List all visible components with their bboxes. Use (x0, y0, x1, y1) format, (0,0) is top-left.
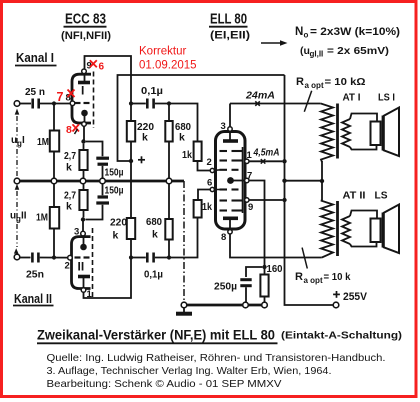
pin 2 stub (214, 169, 219, 172)
resistor 2,7k channel II (79, 184, 87, 218)
svg-text:R: R (295, 271, 303, 283)
capacitor 250µ (240, 280, 251, 303)
svg-text:Zweikanal-Verstärker (NF,E) mi: Zweikanal-Verstärker (NF,E) mit ELL 80 (37, 328, 275, 343)
svg-text:II: II (21, 211, 27, 222)
red cross over pin 9 (90, 60, 97, 67)
resistor 2,7k channel I (79, 144, 87, 179)
anode EII bar (223, 217, 238, 221)
capacitor 0,1µ channel II (147, 253, 153, 263)
title line (37, 328, 402, 344)
svg-text:150µ: 150µ (105, 167, 124, 179)
wire bus to transformer center (285, 180, 321, 182)
tube II cathode dot (80, 244, 87, 251)
svg-text:0,1µ: 0,1µ (141, 85, 163, 97)
circle 160 ground (262, 302, 268, 308)
ELL80 pin 1 circle (245, 159, 249, 163)
arrow to specs (261, 40, 288, 46)
resistor 680k channel I (165, 105, 172, 178)
tube I grid pin circle (70, 101, 75, 106)
pin 6 stub (214, 189, 219, 191)
signal source dash-dot line channel II (16, 191, 18, 247)
svg-text:3: 3 (221, 121, 226, 132)
lead pin 3 to anode wire (229, 104, 231, 127)
label + 255V (333, 291, 368, 303)
svg-text:9: 9 (248, 202, 253, 213)
bottom ground rail (187, 304, 265, 307)
label Kanal II (13, 292, 54, 306)
node input grid I (52, 101, 56, 105)
heading ELL 80 (209, 12, 250, 42)
24mA measuring cross (255, 101, 259, 106)
svg-text:AT II: AT II (343, 190, 366, 202)
rail circle at 2,7k junction (80, 178, 86, 184)
resistor 1k channel II (194, 190, 211, 218)
B+ bus vertical (285, 75, 334, 305)
svg-text:Kanal I: Kanal I (16, 51, 54, 65)
tube II anode lead (83, 277, 85, 288)
node anode I (129, 101, 133, 105)
svg-text:R: R (296, 76, 304, 88)
capacitor 150µ channel II (96, 184, 109, 203)
wire anode node to coupling cap (131, 103, 146, 105)
cathode dot lead to pin 7 (231, 180, 245, 182)
svg-text:Quelle: Ing. Ludwig Ratheiser,: Quelle: Ing. Ludwig Ratheiser, Röhren- u… (47, 353, 386, 364)
pointer line to transformer I (304, 91, 311, 112)
svg-text:(Eintakt-A-Schaltung): (Eintakt-A-Schaltung) (281, 330, 402, 342)
wire terminal II to capacitor (20, 257, 31, 259)
signal source dash-dot line channel I (16, 116, 18, 177)
tube I envelope (72, 74, 91, 123)
rail circle at 150µ junction (100, 178, 106, 184)
svg-text:Kanal II: Kanal II (14, 292, 52, 306)
tube II bottom pin circle (81, 288, 86, 293)
tube I cathode dot (81, 110, 88, 117)
svg-text:2,7: 2,7 (64, 150, 76, 162)
secondary II loop to speaker (350, 211, 377, 219)
ground symbol (176, 308, 192, 314)
red cross bottom (73, 124, 80, 131)
transformer I primary winding (321, 104, 333, 163)
resistor 1M channel I (50, 105, 59, 178)
spec text ugI,II = 2x 65mV (300, 45, 389, 59)
source caption lines (47, 353, 386, 390)
wire anode II to node (84, 259, 132, 298)
transformer I primary lead to center node (321, 161, 323, 181)
svg-text:= 2x3W (k=10%): = 2x3W (k=10%) (310, 26, 400, 38)
wire pin 3 to cathode node (82, 222, 84, 232)
rail terminal circle (input ground) (14, 178, 20, 184)
wire input to capacitor (20, 103, 31, 105)
rail circle at 680k junction (166, 178, 172, 184)
svg-text:220: 220 (110, 217, 127, 229)
cathode bypass wire channel II (86, 205, 103, 220)
speaker II cone (384, 205, 399, 254)
svg-text:Korrektur: Korrektur (139, 46, 186, 58)
svg-text:8: 8 (66, 124, 72, 136)
transformer I core (336, 104, 339, 159)
speaker I magnet (371, 122, 381, 146)
resistor 1k channel I (194, 142, 211, 171)
circle 250µ ground (243, 302, 249, 308)
svg-text:3: 3 (74, 227, 79, 238)
wire anode I up and over (85, 56, 132, 102)
svg-text:= 10 kΩ: = 10 kΩ (325, 76, 366, 88)
tube II envelope (72, 237, 91, 289)
svg-text:k: k (179, 132, 185, 144)
ground terminal circle (181, 302, 187, 308)
transformer II core (336, 201, 339, 256)
cathode wire pin 7 down to 160 (249, 181, 265, 266)
ELL80 pin 6 circle (210, 187, 214, 191)
input terminal channel I (14, 101, 20, 107)
rail circle at 1M junction (51, 178, 57, 184)
label Ra opt = 10 k (bottom) (295, 271, 351, 285)
capacitor 150µ channel I (96, 158, 109, 178)
svg-text:I: I (81, 84, 84, 98)
node grid EI (167, 101, 171, 105)
red correction note (139, 46, 197, 72)
svg-text:= 2x 65mV): = 2x 65mV) (327, 45, 389, 57)
svg-text:k: k (66, 162, 72, 174)
svg-text:I: I (22, 135, 25, 146)
spec text No = 2x3W (k=10%) (295, 26, 400, 40)
svg-text:2: 2 (207, 157, 212, 168)
anode EI wire to transformer I (230, 103, 321, 105)
svg-text:= 10 k: = 10 k (324, 271, 351, 283)
ELL80 pin 8 circle (228, 230, 232, 234)
capacitor 25n channel II (32, 253, 38, 263)
pointer line to transformer II (302, 248, 307, 269)
grid rows bottom pentode (220, 190, 243, 211)
wire cathode pin to node (83, 126, 85, 140)
wire capacitor II to grid (40, 257, 68, 259)
label Kanal I (15, 51, 57, 66)
svg-text:(u: (u (300, 45, 310, 57)
svg-text:k: k (142, 132, 148, 144)
ELL80 pin 7 circle (245, 178, 249, 182)
svg-text:2: 2 (65, 261, 70, 272)
svg-text:LS I: LS I (378, 92, 395, 104)
svg-text:AT I: AT I (343, 92, 361, 104)
speaker II diaphragm (382, 213, 385, 248)
black tick under red cross (75, 129, 78, 134)
arrow above terminal II (14, 248, 19, 253)
svg-text:25 n: 25 n (25, 86, 45, 98)
anode EII bar lead (229, 218, 231, 229)
speaker I cone (384, 108, 399, 157)
svg-text:680: 680 (146, 216, 162, 228)
screen EII wire (pin 9) (249, 199, 282, 201)
red cross over pin 8 (68, 90, 75, 98)
svg-text:1M: 1M (36, 212, 48, 224)
capacitor 0,1µ channel I (147, 99, 153, 109)
svg-text:25n: 25n (26, 269, 44, 281)
ELL80 envelope (216, 132, 246, 230)
screen EI wire (pin 1) with 4,5mA cross (249, 160, 282, 162)
anode EII wire (pin 8) to transformer II (230, 234, 322, 258)
svg-text:250µ: 250µ (214, 281, 237, 293)
svg-text:255V: 255V (343, 291, 368, 303)
node grid EII (167, 255, 171, 259)
node transformer center (320, 179, 324, 183)
svg-text:N: N (295, 26, 303, 38)
svg-text:ECC 83: ECC 83 (65, 12, 106, 28)
resistor 160 (260, 267, 268, 302)
svg-text:150µ: 150µ (105, 185, 124, 197)
tube II anode bar (78, 275, 90, 279)
signal source arrow channel I (15, 109, 20, 115)
ELL80 pin 2 circle (210, 168, 214, 172)
svg-text:8: 8 (221, 232, 226, 243)
plus sign at B+ node (138, 156, 145, 163)
cathode node II (81, 217, 85, 221)
secondary I loop to speaker (350, 114, 377, 122)
node input grid II (52, 255, 56, 259)
wire capacitor to grid (40, 103, 70, 105)
ELL80 cathode dot (227, 177, 234, 184)
node screen EII on bus (282, 198, 286, 202)
B+ feed to 220k channel II (crosses rail) (130, 161, 132, 218)
svg-text:01.09.2015: 01.09.2015 (139, 60, 197, 72)
tube I anode bar (78, 81, 90, 85)
svg-text:3. Auflage, Technischer Verlag: 3. Auflage, Technischer Verlag Ing. Walt… (47, 366, 332, 377)
tube I bottom pin circle (82, 122, 87, 127)
node transformer feed on bus (282, 179, 286, 183)
svg-text:4,5mA: 4,5mA (253, 147, 280, 159)
wire coupling cap II to 1k II (155, 218, 198, 258)
node anode II (129, 255, 133, 259)
resistor 680k channel II (165, 184, 172, 256)
speaker II magnet (371, 219, 381, 243)
svg-text:(NFI,NFII): (NFI,NFII) (61, 30, 111, 42)
svg-text:(EI,EII): (EI,EII) (210, 30, 250, 42)
svg-text:k: k (152, 229, 158, 241)
anode EI bar lead (229, 132, 231, 140)
grid rows top pentode (220, 151, 243, 170)
svg-text:ELL 80: ELL 80 (210, 12, 247, 28)
svg-text:a opt: a opt (304, 276, 323, 285)
node screen EI on bus (282, 159, 286, 163)
svg-text:6: 6 (99, 62, 105, 73)
svg-text:gI,II: gI,II (310, 50, 324, 59)
tube II envelope dashed side (92, 228, 94, 299)
svg-text:o: o (304, 31, 309, 40)
+255V terminal (333, 302, 339, 308)
svg-text:160: 160 (267, 263, 283, 275)
cathode bypass wire channel I (86, 142, 103, 157)
wire 160 node to 250µ (246, 267, 262, 277)
wire anode node II to coupling cap II (131, 257, 146, 259)
anode EI bar (223, 139, 238, 143)
rail drop wire (dash-dot) to ground point (183, 181, 185, 302)
tube I anode lead to pin (84, 74, 86, 83)
svg-text:1M: 1M (37, 136, 49, 148)
tube II cathode lead (83, 236, 85, 247)
internal link top to pin 1 (242, 147, 244, 213)
resistor 1M channel II (50, 184, 59, 256)
heading ECC 83 (61, 12, 111, 43)
ELL80 pin 9 circle (245, 198, 249, 202)
input terminal channel II (14, 254, 20, 260)
cathode node I (81, 139, 85, 143)
wire coupling cap to grid stopper (155, 104, 198, 142)
tube I grid dashes (75, 102, 90, 104)
speaker I diaphragm (382, 116, 385, 151)
transformer I secondary winding (342, 119, 350, 147)
svg-text:24mA: 24mA (245, 90, 275, 102)
tube I cathode lead (84, 113, 86, 122)
tube I top pin circle (82, 69, 87, 74)
svg-text:II: II (78, 260, 85, 274)
svg-text:0,1µ: 0,1µ (144, 269, 163, 281)
svg-text:7: 7 (57, 90, 64, 104)
capacitor 25n channel I (33, 99, 39, 109)
svg-text:k: k (113, 230, 119, 242)
resistor 220k channel I (127, 105, 135, 160)
transformer II primary winding (321, 181, 333, 258)
label Ra opt = 10 kΩ (top) (296, 76, 366, 90)
signal source arrow channel II (below rail) (15, 184, 20, 190)
ELL80 pin 3 circle (228, 127, 232, 131)
label ugII (10, 211, 27, 224)
B+ node channel loads (129, 159, 133, 163)
svg-text:Bearbeitung: Schenk © Audio -: Bearbeitung: Schenk © Audio - 01 SEP MMX… (47, 379, 282, 390)
resistor 220k channel II (127, 218, 135, 256)
svg-text:1k: 1k (202, 201, 212, 213)
tube II grid pin circle (68, 255, 73, 260)
svg-text:k: k (66, 201, 72, 213)
tube I envelope dashed side (93, 72, 95, 129)
node at 160 top (262, 265, 266, 269)
svg-text:a opt: a opt (305, 81, 324, 90)
transformer II secondary winding (342, 216, 350, 244)
tube II top pin circle (81, 231, 86, 236)
label ugI (11, 135, 25, 148)
ground rail horizontal (14, 180, 184, 183)
tube II grid dashes (75, 256, 90, 258)
B+ feed wire to bus (118, 75, 285, 161)
svg-text:1k: 1k (182, 149, 192, 161)
svg-text:LS: LS (375, 190, 388, 202)
